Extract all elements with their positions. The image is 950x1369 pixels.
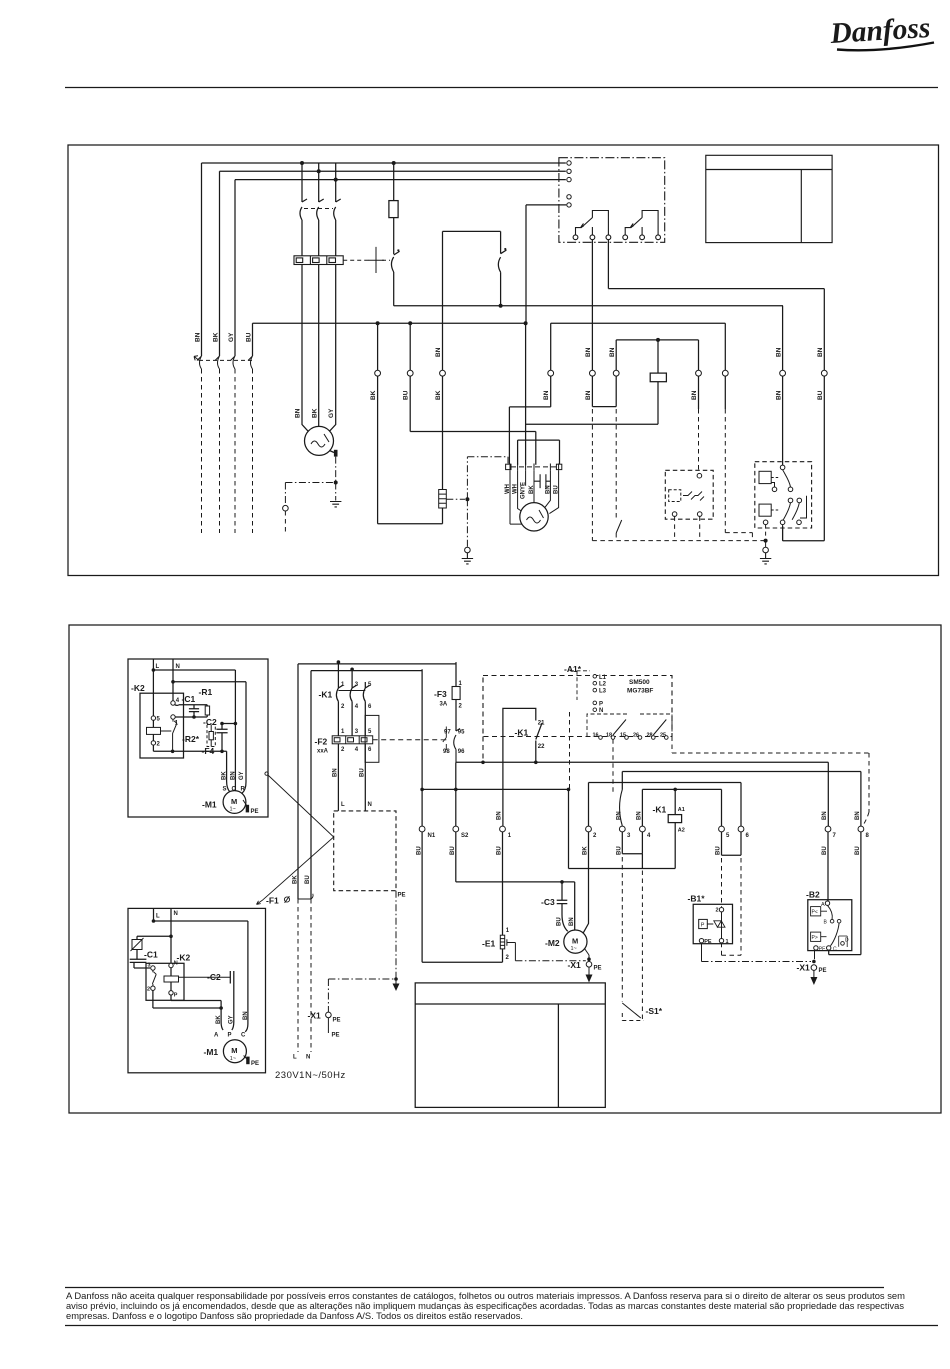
svg-text:25: 25 — [660, 733, 666, 739]
disconnect switch Q1 blades — [197, 356, 253, 369]
svg-text:BK: BK — [583, 846, 589, 855]
wire L run to motor C — [154, 921, 248, 1032]
footer disclaimer text — [66, 1291, 905, 1321]
pressure switch box dashed — [755, 462, 812, 528]
A1 18 dashed drop — [612, 739, 614, 795]
terminal circles row — [375, 370, 827, 376]
node X1 M2 — [587, 957, 591, 961]
svg-text:-E1: -E1 — [482, 939, 496, 949]
svg-text:PE: PE — [251, 809, 259, 815]
dashed supply to X10 plug — [298, 899, 311, 1052]
svg-text:P: P — [701, 922, 705, 928]
M2 PE arm — [585, 949, 590, 959]
svg-text:-M2: -M2 — [545, 938, 560, 948]
label BN BK GY at motor — [295, 408, 336, 418]
wire G from aux run — [782, 306, 784, 465]
svg-text:-C2: -C2 — [203, 717, 217, 727]
wire busB to A2 run — [568, 789, 570, 868]
wire BN dashed below switch — [201, 369, 203, 533]
X1 PE arrow — [588, 967, 590, 974]
motor terminal strip — [506, 464, 562, 471]
overload trip linkage dashed — [343, 259, 370, 261]
ground symbol 1 — [335, 483, 337, 501]
S sensor box dashed — [665, 470, 713, 519]
node L2 — [152, 919, 156, 923]
svg-text:BN: BN — [195, 332, 202, 342]
link to C wire — [222, 723, 235, 725]
node bus 377 — [376, 321, 380, 325]
M1 unit2 PE — [244, 1056, 247, 1060]
B2 PE to X1 — [814, 950, 816, 959]
X1 B2 arrow — [813, 970, 815, 977]
svg-text:-S1*: -S1* — [646, 1006, 663, 1016]
trip crossbar — [368, 247, 384, 273]
K2 unit2 terminals — [151, 966, 155, 970]
riser labels — [292, 875, 311, 884]
feeder 2 — [311, 670, 422, 672]
svg-text:M: M — [572, 937, 578, 946]
svg-text:SM500: SM500 — [629, 679, 650, 686]
svg-text:BN: BN — [822, 811, 828, 820]
svg-text:M: M — [231, 797, 237, 806]
svg-text:BN: BN — [691, 390, 698, 400]
capacitor C1 — [189, 705, 199, 717]
svg-text:PE: PE — [704, 939, 712, 945]
svg-text:-B1*: -B1* — [688, 894, 706, 904]
wire A top — [550, 323, 552, 370]
overload trip linkage dashed — [373, 739, 441, 741]
switch on fuse wire — [391, 250, 399, 272]
node PE — [394, 977, 398, 981]
svg-text:S2: S2 — [461, 833, 469, 839]
PE terminal blob — [334, 450, 338, 457]
svg-text:BU: BU — [359, 768, 365, 777]
svg-text:-C1: -C1 — [144, 950, 158, 960]
wire 410 to motor strip — [410, 323, 536, 465]
svg-text:BN: BN — [776, 390, 783, 400]
capacitor C1 unit2 — [130, 959, 150, 968]
svg-text:BU: BU — [403, 390, 410, 400]
feeder 1 — [298, 663, 456, 665]
strip wire labels — [505, 482, 560, 499]
terminal 2 — [151, 741, 155, 745]
relay K2 box unit2 — [146, 963, 184, 1000]
dashed below plug — [284, 511, 286, 535]
wire L3 feeder — [235, 180, 566, 356]
capacitor C2 unit2 — [230, 971, 234, 1030]
wire H down right side — [783, 289, 825, 541]
node run junction — [499, 304, 503, 308]
bridge bar above strip — [518, 440, 560, 465]
node link left — [220, 722, 224, 726]
svg-text:-C3: -C3 — [541, 897, 555, 907]
wire B dashed drop — [591, 409, 593, 541]
heater E1 — [502, 832, 504, 935]
A1 P-N dashed drop — [569, 712, 571, 788]
blade to terminal 3 — [620, 790, 623, 826]
svg-text:BN: BN — [497, 811, 503, 820]
relay K2 coil — [152, 720, 154, 740]
svg-text:BN: BN — [855, 811, 861, 820]
pressure switch terminals — [763, 465, 801, 524]
svg-text:BU: BU — [246, 332, 253, 342]
callout V lines — [263, 775, 334, 900]
wire GY dashed below switch — [234, 369, 236, 533]
svg-text:BK: BK — [216, 1015, 222, 1024]
svg-text:A: A — [821, 902, 825, 908]
PE dash-dot from box — [395, 891, 397, 979]
legend box top right — [706, 155, 832, 242]
wire 377 vertical — [377, 323, 379, 524]
svg-text:PE: PE — [251, 1061, 259, 1067]
svg-text:N: N — [176, 664, 180, 670]
svg-text:R: R — [241, 787, 246, 793]
svg-text:BU: BU — [817, 390, 824, 400]
svg-text:P>: P> — [812, 935, 818, 941]
B1 triac symbol — [714, 921, 725, 927]
motor M2 — [564, 930, 587, 953]
svg-text:L3: L3 — [599, 689, 607, 695]
svg-text:-A1*: -A1* — [564, 664, 582, 674]
resistor R1 — [205, 706, 209, 715]
pressure sensor B2 — [808, 900, 852, 951]
svg-text:1~: 1~ — [571, 946, 577, 952]
svg-text:-C2: -C2 — [207, 972, 221, 982]
svg-text:A2: A2 — [678, 828, 685, 834]
svg-text:Danfoss: Danfoss — [828, 12, 931, 50]
node motor A — [219, 1006, 223, 1010]
callout hook — [265, 772, 268, 775]
svg-text:PE: PE — [594, 966, 602, 972]
pressure switch contact block 2 — [759, 504, 771, 516]
capacitor C top diagram — [534, 474, 550, 488]
svg-text:P: P — [174, 993, 178, 999]
top diagram border — [68, 145, 939, 576]
svg-text:BU: BU — [716, 846, 722, 855]
wire L1 feeder — [202, 163, 566, 356]
bus net1 — [253, 322, 526, 324]
svg-text:BN: BN — [776, 347, 783, 357]
appliance outline box — [415, 983, 605, 1108]
node L3-junction — [334, 178, 338, 182]
motor M2 top diagram — [520, 503, 548, 531]
fuse F top — [393, 163, 395, 201]
M2 supply wire — [583, 832, 588, 933]
svg-text:BK: BK — [292, 875, 298, 884]
svg-text:PE: PE — [819, 947, 826, 953]
svg-text:BU: BU — [617, 846, 623, 855]
node C3 — [560, 880, 564, 884]
contactor K1 pole 3 — [363, 682, 370, 736]
K2 unit2 coil — [170, 968, 172, 991]
pressure switch dashed drops — [765, 525, 767, 539]
svg-text:BN: BN — [569, 917, 575, 926]
B2 blades — [828, 905, 840, 945]
line 771 thermostat chain — [622, 772, 861, 790]
svg-text:L: L — [341, 802, 345, 808]
S sensor wires dashed to PE bus — [675, 516, 700, 540]
wire h2 to R — [173, 682, 246, 793]
wire F top — [724, 323, 726, 370]
svg-text:-F3: -F3 — [434, 689, 447, 699]
wire h3 — [153, 750, 226, 752]
PE dash-dot drop to plug — [284, 483, 286, 506]
wire colour labels M1 — [222, 771, 246, 793]
K2 outputs to motor — [153, 990, 223, 1030]
svg-text:18: 18 — [606, 733, 612, 739]
node X1 B2 — [812, 960, 816, 964]
svg-text:N: N — [174, 961, 178, 967]
node bus 410 — [408, 321, 412, 325]
B2 A terminal — [825, 901, 829, 905]
contactor pin labels — [341, 682, 372, 753]
svg-text:BN: BN — [243, 1011, 249, 1020]
svg-text:15: 15 — [620, 733, 626, 739]
A1 terminals — [593, 675, 597, 712]
header rule — [65, 87, 938, 89]
svg-text:A1: A1 — [678, 807, 685, 813]
wire C3 branch — [456, 832, 575, 931]
svg-text:BN: BN — [609, 347, 616, 357]
svg-text:BK: BK — [222, 771, 228, 780]
node C2 bottom — [220, 750, 224, 754]
B2 D terminal — [841, 942, 845, 946]
svg-text:GY: GY — [228, 332, 235, 342]
bottom diagram border — [69, 625, 941, 1113]
svg-text:BN: BN — [637, 811, 643, 820]
svg-text:BN: BN — [435, 347, 442, 357]
svg-text:BU: BU — [822, 846, 828, 855]
node N — [171, 680, 175, 684]
wire C dashed drop with switch — [615, 409, 617, 520]
trip contact 97-98 — [441, 727, 446, 751]
bus net2 — [551, 322, 726, 324]
disconnect switch handle arrow — [194, 356, 199, 361]
svg-text:PE: PE — [333, 1018, 341, 1024]
U link terminals 3-4 — [622, 832, 642, 854]
svg-text:C: C — [833, 947, 837, 953]
svg-text:21: 21 — [538, 721, 545, 727]
B2 C terminal — [827, 946, 831, 950]
M1 PE blob — [246, 805, 249, 813]
terminal row colour labels — [416, 811, 861, 855]
svg-text:N: N — [306, 1055, 310, 1061]
svg-text:BN: BN — [543, 390, 550, 400]
capacitor C3 — [557, 882, 568, 931]
svg-text:26: 26 — [633, 733, 639, 739]
A1 type text — [627, 679, 653, 695]
svg-text:P<: P< — [812, 910, 818, 916]
svg-text:BN: BN — [230, 771, 236, 780]
svg-text:N1: N1 — [428, 833, 436, 839]
pressure switch blades — [771, 470, 806, 520]
A1 inner bracket — [570, 671, 590, 700]
supply risers to X10 — [298, 664, 311, 899]
contactor linkage — [338, 690, 365, 692]
contactor K1 pole 1 — [336, 662, 343, 736]
node dash junction — [465, 497, 469, 501]
svg-text:M: M — [231, 1046, 237, 1055]
terminal row labels — [428, 833, 870, 839]
node N2 — [169, 935, 173, 939]
label L N unit1 — [156, 664, 180, 670]
motor wire labels unit2 — [214, 1011, 249, 1038]
svg-text:P: P — [599, 701, 603, 707]
bus B — [422, 788, 568, 790]
terminal X10 — [326, 1012, 332, 1018]
svg-text:BN: BN — [295, 408, 302, 418]
line2 coil feed — [642, 789, 721, 826]
svg-text:230V1N~/50Hz: 230V1N~/50Hz — [275, 1070, 346, 1081]
svg-text:C: C — [241, 1033, 246, 1039]
wire N unit1 — [172, 659, 174, 701]
svg-text:28: 28 — [647, 733, 653, 739]
appliance dashed box — [334, 811, 396, 891]
terminal 8 riser — [860, 772, 862, 827]
svg-text:BU: BU — [450, 846, 456, 855]
K2 unit2 contact blade — [152, 970, 156, 986]
svg-text:empresas. Danfoss e o logotipo: empresas. Danfoss e o logotipo Danfoss s… — [66, 1311, 523, 1321]
svg-text:BU: BU — [305, 875, 311, 884]
svg-text:-F2: -F2 — [315, 737, 328, 747]
svg-text:BU: BU — [855, 846, 861, 855]
PTC thermistor R — [132, 940, 142, 950]
wire N1 — [422, 669, 502, 962]
A1 left dashed drop — [482, 737, 484, 763]
svg-text:22: 22 — [538, 744, 545, 750]
S1 switch blade — [622, 1003, 641, 1018]
overload F2 block — [332, 736, 373, 744]
node coil K1 — [673, 788, 677, 792]
node pole1 — [337, 660, 341, 664]
svg-text:L: L — [156, 664, 160, 670]
wire terminal 1 drop — [502, 762, 504, 826]
svg-text:-K1: -K1 — [653, 805, 667, 815]
node K2 bottom — [171, 750, 175, 754]
wire E dashed to S sensor — [698, 376, 700, 409]
svg-text:-K2: -K2 — [177, 953, 191, 963]
relay coil K — [657, 340, 659, 424]
RC network node top — [175, 704, 207, 707]
motor PE lead — [330, 451, 335, 453]
svg-text:BN: BN — [817, 347, 824, 357]
wire L unit1 — [152, 659, 154, 716]
wires below overload to motor — [302, 265, 336, 433]
wire N unit2 — [170, 908, 172, 963]
resistor R2 dashed optional — [207, 725, 215, 747]
svg-text:-M1: -M1 — [202, 800, 217, 810]
pin labels K2 — [157, 698, 180, 748]
wire from relay1 right terminal to H — [608, 240, 824, 289]
wire L unit2 — [153, 908, 155, 921]
node link right — [234, 722, 238, 726]
wire A U-link — [509, 376, 550, 465]
svg-text:BK: BK — [370, 390, 377, 400]
svg-text:1~: 1~ — [230, 1056, 236, 1062]
svg-text:-R1: -R1 — [199, 687, 213, 697]
coil lead to C2 — [179, 976, 231, 978]
svg-text:PE: PE — [819, 968, 827, 974]
node coil junction — [656, 338, 660, 342]
wire BU dashed below switch — [252, 369, 254, 533]
A1 control dashed to sensor 8 — [672, 737, 869, 813]
unit box M1 — [128, 659, 268, 817]
motor M compressor top — [305, 426, 334, 455]
svg-text:aviso prévio, incluindo os já: aviso prévio, incluindo os já encomendad… — [66, 1301, 904, 1311]
strip below wires — [510, 470, 559, 524]
svg-text:3A: 3A — [440, 702, 448, 708]
bus A — [456, 761, 828, 763]
wire colour labels at terminal row — [370, 347, 824, 400]
B2 C loop — [829, 832, 861, 955]
svg-text:L2: L2 — [599, 682, 607, 688]
svg-text:L1: L1 — [599, 675, 607, 681]
svg-text:-R2*: -R2* — [182, 734, 200, 744]
svg-text:BK: BK — [435, 390, 442, 400]
wire BU drop from bus — [252, 323, 254, 356]
svg-text:-X1: -X1 — [308, 1011, 322, 1021]
segment with coil junction — [616, 340, 698, 371]
wire L2 feeder — [220, 171, 566, 356]
terminal X1 M2 — [586, 962, 592, 968]
colour labels — [333, 768, 372, 808]
control box A dash-dot border — [559, 158, 665, 243]
node L1-junction2 — [392, 161, 396, 165]
B2 PE terminal — [814, 946, 818, 950]
terminal 1 — [171, 715, 175, 719]
disconnect switch linkage dashed — [199, 359, 253, 361]
svg-text:P: P — [228, 1033, 232, 1039]
unit box M1 lower — [128, 908, 266, 1072]
B1 dashed feeds — [721, 858, 723, 907]
svg-text:A: A — [214, 1033, 219, 1039]
PE dash-dot down — [335, 457, 337, 483]
B2 P-more block — [811, 932, 821, 941]
dash-dot up and right to strip — [467, 457, 508, 499]
svg-text:N: N — [368, 802, 372, 808]
node L2-junction — [317, 169, 321, 173]
striped connector — [439, 490, 447, 509]
B2 mid terminals — [830, 919, 834, 923]
wire BK dashed below switch — [219, 369, 221, 533]
M1 PE lead — [243, 800, 247, 806]
B2 P-less block — [811, 907, 821, 916]
svg-text:16: 16 — [593, 733, 599, 739]
wire to terminal 5 — [526, 205, 566, 323]
svg-text:GY: GY — [229, 1015, 235, 1024]
svg-text:BU: BU — [556, 917, 562, 926]
svg-text:xxA: xxA — [317, 749, 329, 755]
svg-text:96: 96 — [458, 749, 465, 755]
svg-text:97: 97 — [444, 730, 451, 736]
svg-text:PE: PE — [398, 893, 406, 899]
labels L N unit2 — [156, 911, 178, 920]
footer rule top — [65, 1287, 884, 1289]
svg-text:-X1: -X1 — [797, 963, 811, 973]
ground terminal circle 3 — [765, 541, 767, 548]
svg-text:BU: BU — [497, 846, 503, 855]
terminal X1 B2 — [811, 965, 817, 971]
contactor contacts on phase wires — [300, 163, 341, 256]
PE arrow — [395, 979, 397, 984]
svg-text:-F1: -F1 — [266, 896, 279, 906]
terminal circle PE plug — [283, 505, 289, 511]
node bus end — [524, 321, 528, 325]
node L — [152, 668, 156, 672]
footer rule bottom — [65, 1325, 938, 1327]
node L1-junction1 — [300, 161, 304, 165]
motor M1 unit2 — [223, 1040, 246, 1063]
